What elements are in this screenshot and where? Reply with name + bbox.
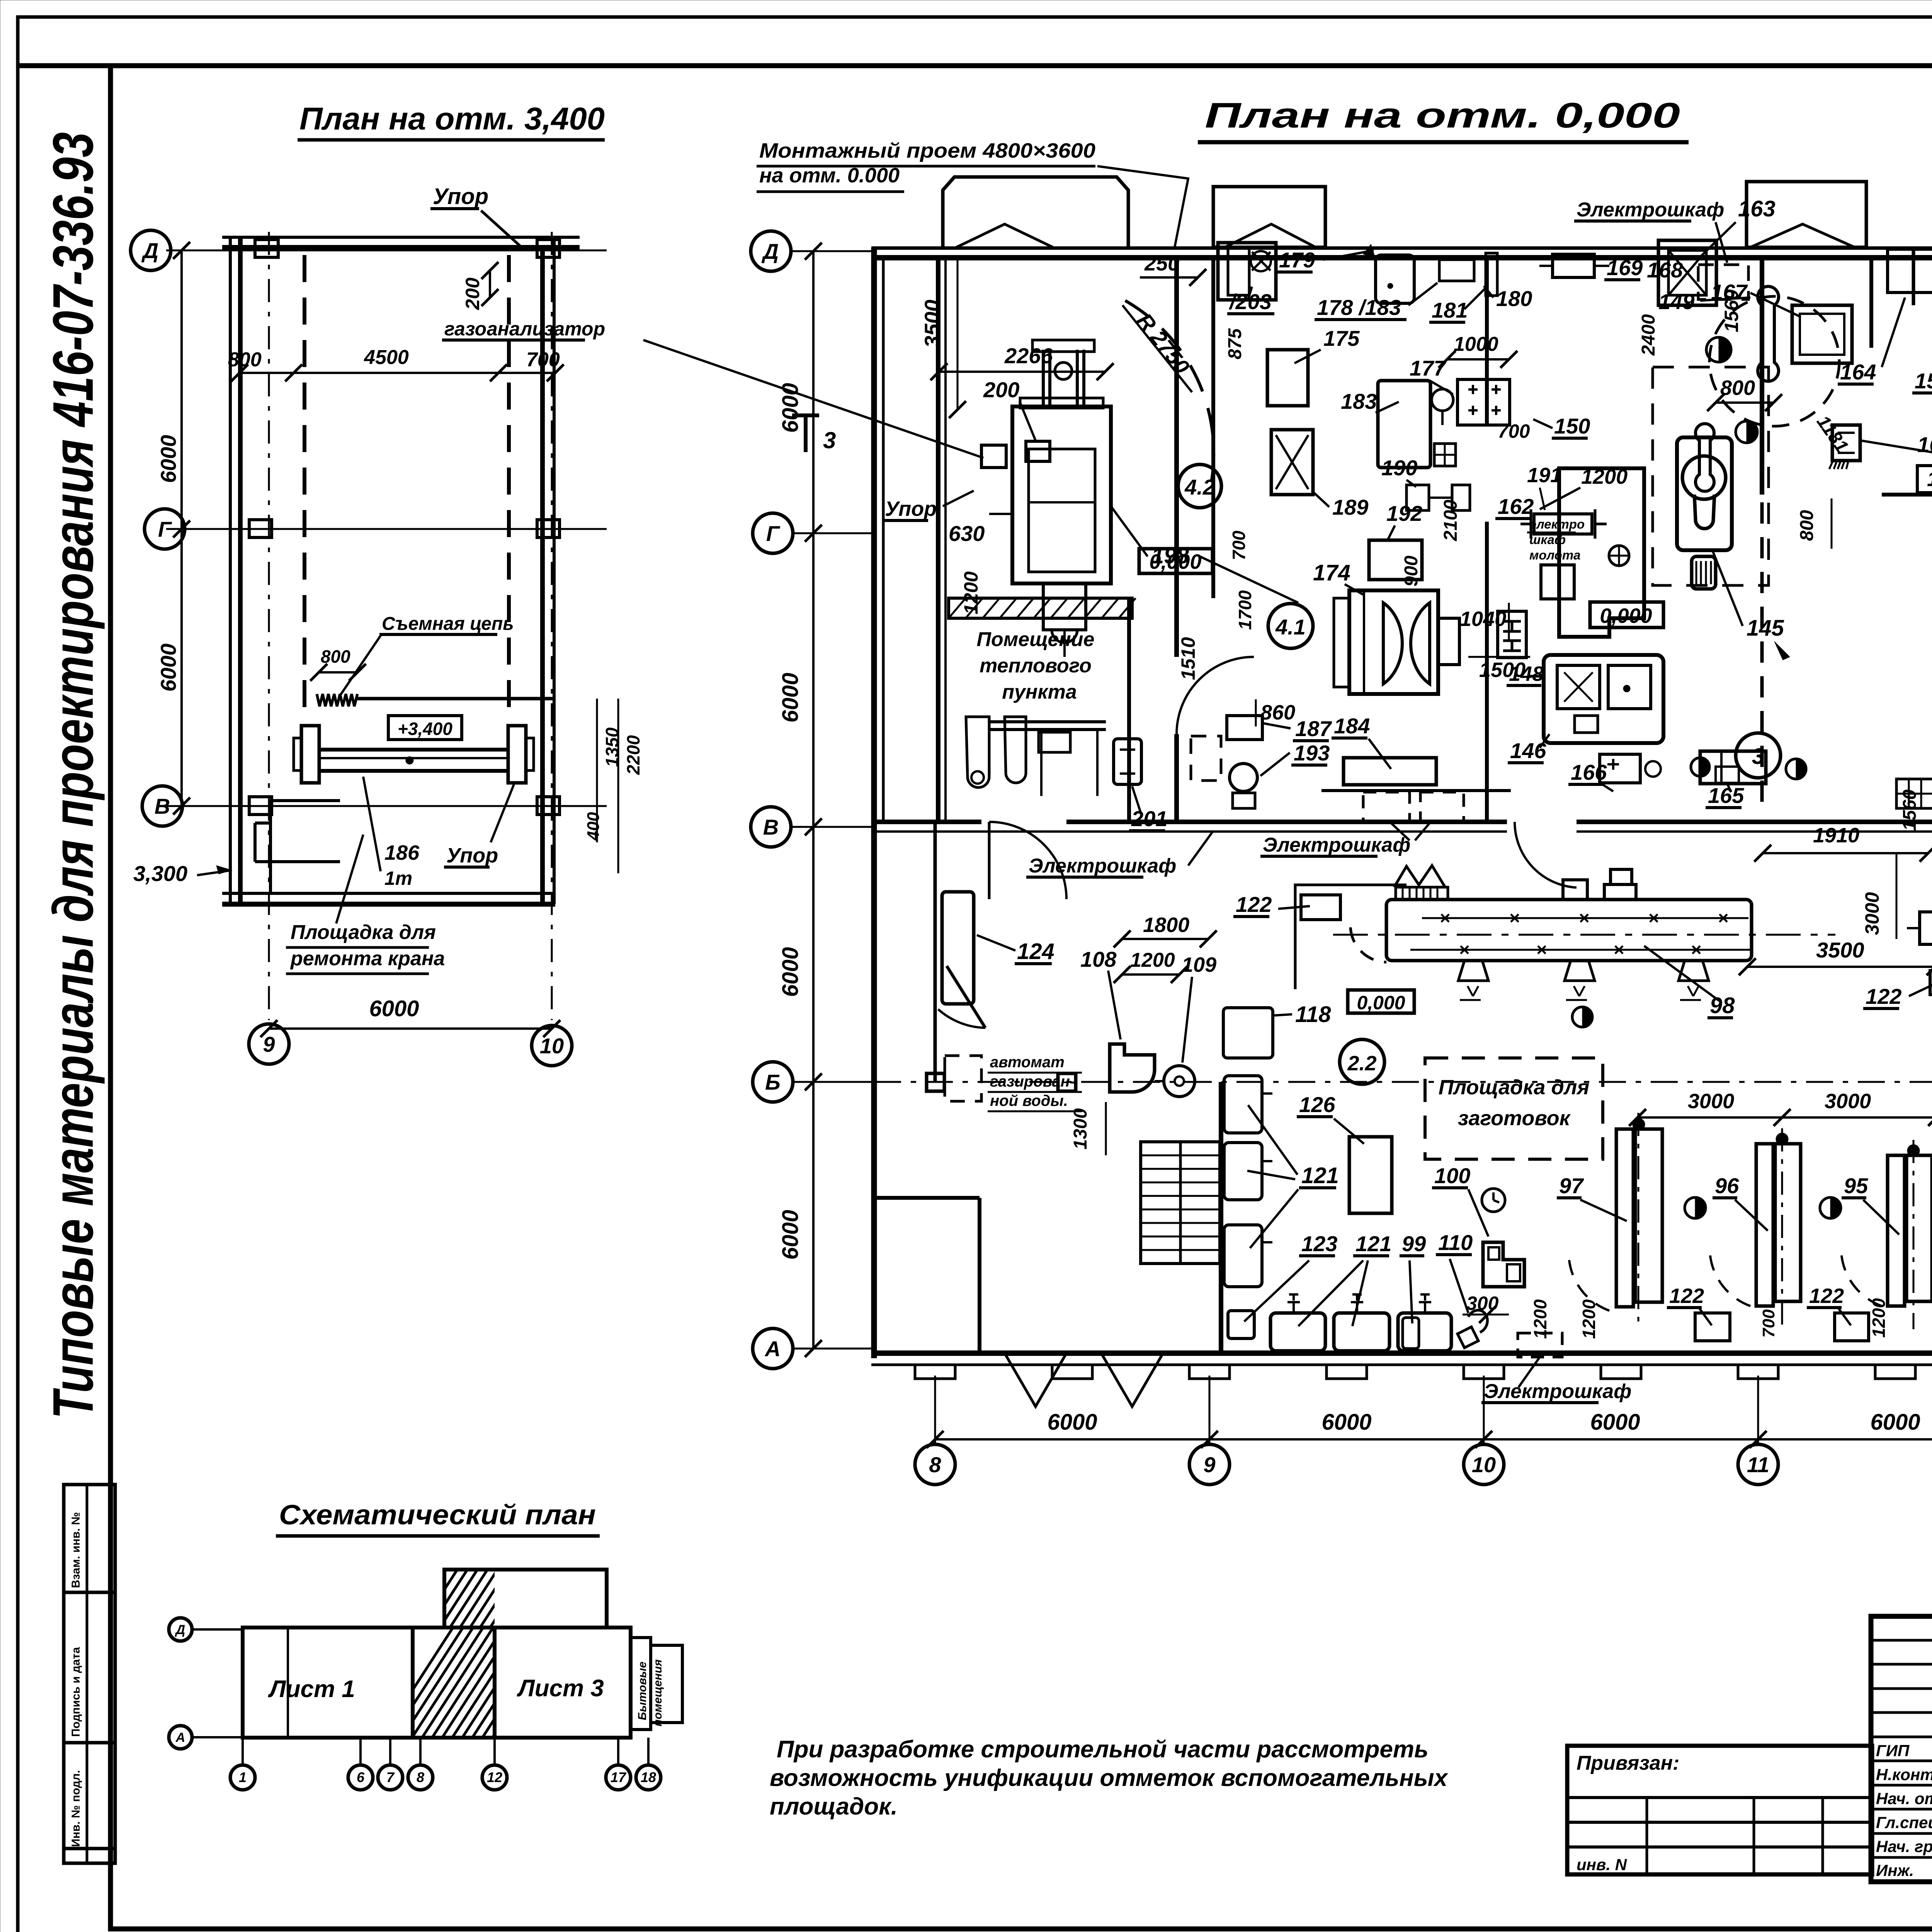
axis circle B central — [753, 1062, 793, 1102]
svg-text:Электрошкаф: Электрошкаф — [1263, 834, 1410, 856]
sink 100 unit — [1483, 1242, 1524, 1287]
half circles row — [1685, 1197, 1706, 1218]
schematic outline list1 — [243, 1628, 413, 1738]
svg-text:инв. N: инв. N — [1577, 1855, 1628, 1874]
svg-text:99: 99 — [1402, 1231, 1426, 1256]
svg-text:6000: 6000 — [778, 383, 803, 433]
machine 174 — [1349, 590, 1438, 694]
svg-text:400: 400 — [584, 812, 603, 841]
room level mark 0,000 — [1139, 549, 1213, 573]
svg-text:178 /183: 178 /183 — [1317, 295, 1401, 320]
svg-text:6000: 6000 — [778, 1210, 803, 1260]
svg-text:Гл.спец.: Гл.спец. — [1876, 1813, 1932, 1832]
schematic top bump — [444, 1570, 607, 1628]
left plan axis line V — [166, 805, 607, 807]
leader to proem — [1097, 166, 1188, 247]
svg-text:Лист 1: Лист 1 — [268, 1676, 355, 1702]
axis circle G central — [753, 513, 793, 553]
svg-text:ремонта крана: ремонта крана — [290, 947, 445, 970]
level mark +3,400 — [388, 716, 462, 740]
svg-text:Электрошкаф: Электрошкаф — [1577, 199, 1724, 221]
gate swing marks on D wall — [956, 224, 1053, 247]
svg-text:149: 149 — [1658, 289, 1694, 314]
svg-text:177: 177 — [1410, 356, 1447, 380]
item 126 box — [1349, 1137, 1392, 1213]
wall along axis V — [874, 820, 981, 824]
svg-text:122: 122 — [1236, 892, 1272, 917]
svg-text:1560: 1560 — [1721, 289, 1742, 332]
svg-text:Нач. гр.: Нач. гр. — [1876, 1837, 1932, 1855]
partition line x3352 — [1295, 885, 1406, 989]
dashed cabinet top right — [1698, 265, 1748, 299]
toilet 110 — [1458, 1327, 1478, 1348]
svg-text:1т: 1т — [384, 867, 412, 889]
svg-text:Электрошкаф: Электрошкаф — [1029, 855, 1176, 877]
bottom dimension line of central plan — [935, 1438, 1932, 1440]
teplopunkt left hatched wall — [949, 598, 1132, 618]
columns on axis G — [249, 520, 272, 537]
svg-text:В: В — [763, 815, 779, 839]
svg-text:Бытовые: Бытовые — [636, 1662, 649, 1720]
svg-text:2100: 2100 — [1440, 500, 1461, 541]
svg-text:146: 146 — [1510, 738, 1546, 763]
svg-text:6000: 6000 — [156, 643, 180, 692]
svg-text:17: 17 — [611, 1769, 627, 1785]
item 149 bone — [1758, 286, 1779, 381]
label 171 boxed — [1917, 466, 1932, 493]
axis circle 10c — [1464, 1444, 1504, 1485]
svg-text:0,000: 0,000 — [1600, 604, 1652, 628]
axis circle D — [131, 230, 171, 270]
svg-text:97: 97 — [1559, 1173, 1584, 1198]
machine 98 checker platform — [1396, 887, 1448, 900]
left plan axis line G — [166, 528, 607, 530]
svg-text:8: 8 — [417, 1769, 424, 1785]
washbasin boxes 121 column — [1224, 1076, 1262, 1133]
svg-text:ной воды.: ной воды. — [990, 1092, 1068, 1109]
left outer wall — [871, 248, 877, 1358]
title block small rows left — [1871, 1639, 1932, 1642]
machine 145 lower — [1692, 556, 1716, 589]
door arc R2750 dashed — [1125, 301, 1214, 480]
item 118 box — [1223, 1008, 1273, 1058]
svg-text:630: 630 — [949, 521, 985, 546]
machine 163 X-box — [1658, 240, 1716, 305]
svg-text:8: 8 — [929, 1452, 941, 1477]
svg-text:4.1: 4.1 — [1275, 615, 1306, 639]
svg-text:10: 10 — [1472, 1452, 1496, 1477]
svg-text:800: 800 — [321, 646, 350, 667]
V wall lower thin line — [874, 830, 1507, 833]
press 198 lower part — [1043, 583, 1086, 630]
svg-text:6000: 6000 — [1321, 1410, 1371, 1435]
level mark 0,000 right room — [1590, 602, 1663, 628]
svg-text:возможность унификации отмето: возможность унификации отметок вспомогат… — [770, 1765, 1449, 1791]
fixture row 2 — [1334, 1313, 1389, 1351]
fixture row 3 — [1398, 1313, 1451, 1351]
svg-text:Г: Г — [158, 517, 172, 541]
item 192 box — [1369, 540, 1422, 580]
bottom wall along axis A — [871, 1350, 1932, 1356]
workbench line under 184 — [1321, 789, 1511, 792]
lower room wall vertical x2535 — [978, 1198, 981, 1353]
wall on axis 10 upper — [1485, 258, 1489, 425]
svg-text:ГИП: ГИП — [1876, 1742, 1910, 1760]
machine 97 — [1616, 1129, 1633, 1307]
svg-text:121: 121 — [1355, 1231, 1391, 1256]
fixture row 1 — [1270, 1313, 1325, 1351]
svg-text:200: 200 — [983, 378, 1019, 402]
item 175 box — [1267, 350, 1308, 406]
svg-text:1: 1 — [239, 1769, 247, 1785]
drain circle under 98 — [1572, 1007, 1592, 1027]
svg-text:Д: Д — [762, 239, 779, 264]
svg-text:174: 174 — [1313, 560, 1350, 585]
dashed arc left of 98 — [1350, 927, 1386, 962]
circle 4.1 — [1268, 604, 1313, 648]
svg-text:Площадка для: Площадка для — [291, 921, 436, 944]
svg-text:126: 126 — [1299, 1092, 1335, 1117]
svg-text:Упор: Упор — [885, 497, 937, 520]
svg-text:148: 148 — [1509, 662, 1544, 685]
svg-text:179: 179 — [1279, 248, 1315, 272]
stairs — [1141, 1142, 1220, 1264]
svg-text:Б: Б — [765, 1070, 781, 1094]
svg-text:124: 124 — [1017, 939, 1054, 964]
svg-text:12: 12 — [487, 1769, 502, 1785]
crane rail dashed right — [507, 255, 511, 719]
dashed zone around 145 — [1653, 367, 1769, 585]
machine 95 — [1888, 1155, 1905, 1306]
repair platform outline — [269, 800, 272, 893]
small box left of fixtures — [1228, 1311, 1254, 1338]
machine 98 top bumps — [1563, 880, 1587, 900]
cabinet molota box — [1541, 565, 1574, 599]
parapet bump mid above D — [1213, 187, 1325, 247]
item 167 box — [1792, 305, 1852, 363]
svg-text:0,000: 0,000 — [1357, 992, 1405, 1014]
title block outer box — [1871, 1616, 1932, 1882]
svg-text:1700: 1700 — [1235, 590, 1255, 630]
parapet bump right above D — [1747, 182, 1866, 247]
door arc at V opening right — [1515, 822, 1577, 888]
svg-text:1300: 1300 — [1070, 1108, 1091, 1150]
svg-text:А: А — [175, 1730, 185, 1745]
svg-text:6000: 6000 — [1047, 1410, 1097, 1435]
svg-text:Инж.: Инж. — [1876, 1861, 1914, 1879]
dashed cabinets above V wall — [1363, 792, 1410, 821]
svg-text:Съемная цепь: Съемная цепь — [382, 614, 514, 634]
taps above fixtures — [1287, 1294, 1300, 1313]
I-beam rack 148 — [1498, 611, 1526, 658]
door arc at V opening left — [989, 822, 1066, 899]
svg-text:181: 181 — [1432, 298, 1468, 322]
svg-text:192: 192 — [1386, 501, 1422, 526]
svg-text:6000: 6000 — [1590, 1410, 1640, 1435]
svg-text:187: 187 — [1295, 716, 1332, 741]
half circle marker 1 — [1706, 337, 1731, 362]
svg-text:180: 180 — [1496, 286, 1532, 311]
machine 145 keyhole — [1677, 437, 1732, 550]
svg-text:Нач. отд.: Нач. отд. — [1876, 1789, 1932, 1808]
machine 98 long conveyor — [1386, 900, 1752, 961]
svg-text:175: 175 — [1323, 326, 1360, 350]
svg-text:201: 201 — [1131, 806, 1167, 831]
item 122 box right — [1930, 971, 1932, 995]
svg-text:Помещение: Помещение — [977, 628, 1095, 651]
ploschadka dlya zagotovok dashed box — [1425, 1058, 1603, 1159]
svg-text:Упор: Упор — [433, 184, 488, 209]
svg-text:3500: 3500 — [1816, 938, 1864, 962]
svg-text:При разработке строительной ч: При разработке строительной части рассмо… — [777, 1736, 1429, 1763]
machine 146-148 cluster — [1544, 655, 1663, 743]
item 169 ventilation — [1553, 254, 1594, 277]
svg-text:860: 860 — [1260, 701, 1295, 724]
schematic bottom circles — [241, 1738, 244, 1764]
left plan axis line D — [166, 250, 607, 252]
svg-text:6: 6 — [357, 1769, 365, 1785]
svg-text:Схематический план: Схематический план — [279, 1500, 596, 1531]
crane end truck left — [301, 726, 319, 783]
svg-text:100: 100 — [1434, 1163, 1470, 1188]
svg-text:Лист 3: Лист 3 — [517, 1675, 604, 1702]
boiler equipment — [966, 717, 989, 787]
svg-text:2.2: 2.2 — [1347, 1052, 1376, 1075]
interior wall on axis 8 — [936, 258, 940, 822]
svg-text:193: 193 — [1294, 741, 1330, 765]
machine 165 — [1700, 751, 1766, 784]
door swings below A wall — [1005, 1353, 1066, 1406]
dot on beam — [406, 757, 413, 764]
svg-text:1200: 1200 — [1130, 949, 1175, 971]
svg-text:Н.контр: Н.контр — [1876, 1765, 1932, 1784]
item 190 small boxes — [1406, 485, 1429, 510]
axis circle V central — [751, 807, 791, 847]
svg-text:165: 165 — [1708, 783, 1744, 808]
svg-text:+3,400: +3,400 — [398, 719, 452, 739]
svg-text:3,300: 3,300 — [133, 861, 187, 886]
svg-text:122: 122 — [1866, 984, 1901, 1009]
dashed cabinet near wall x3100 — [1191, 736, 1221, 781]
svg-text:164: 164 — [1840, 360, 1876, 384]
axis circle 9c — [1189, 1444, 1230, 1485]
svg-text:123: 123 — [1301, 1231, 1337, 1256]
pilaster tabs below A wall — [915, 1365, 955, 1379]
circle 4.2 — [1178, 464, 1221, 508]
svg-text:700: 700 — [1498, 420, 1530, 442]
axis circle A central — [753, 1328, 793, 1369]
svg-text:1200: 1200 — [1869, 1298, 1889, 1338]
item 189 fan box — [1271, 430, 1313, 495]
svg-text:300: 300 — [1466, 1293, 1499, 1314]
svg-text:118: 118 — [1295, 1002, 1331, 1027]
svg-text:автомат: автомат — [990, 1054, 1065, 1071]
svg-text:6000: 6000 — [369, 996, 419, 1021]
lower room wall horizontal y3100 — [876, 1196, 980, 1200]
svg-text:3000: 3000 — [1861, 892, 1883, 935]
machine 98 centerlines — [1422, 917, 1748, 919]
svg-text:2400: 2400 — [1638, 314, 1659, 356]
door arcs dashed lower — [1569, 1256, 1609, 1311]
dashed cabinet 122 bottom — [1518, 1333, 1562, 1357]
svg-text:газирован-: газирован- — [990, 1073, 1075, 1090]
machine 162 big block — [1559, 468, 1644, 637]
svg-text:121: 121 — [1301, 1163, 1339, 1188]
item 191 fitting — [1534, 514, 1592, 534]
crane end truck right — [508, 726, 526, 783]
svg-text:95: 95 — [1844, 1173, 1868, 1198]
parapet bump left above D — [943, 177, 1128, 247]
svg-text:пункта: пункта — [1002, 681, 1077, 703]
schematic axis A — [169, 1726, 192, 1749]
small square grid item — [1434, 444, 1456, 466]
sensor box gazoanalizator — [981, 445, 1006, 468]
item 124 tall rect — [942, 892, 974, 1004]
svg-text:6000: 6000 — [778, 947, 803, 997]
svg-text:площадок.: площадок. — [770, 1793, 898, 1820]
svg-text:Типовые материалы для проек: Типовые материалы для проектирования 416… — [41, 132, 105, 1419]
svg-text:Д: Д — [175, 1622, 185, 1637]
svg-text:171: 171 — [1927, 468, 1932, 491]
svg-text:2266: 2266 — [1004, 344, 1053, 368]
columns on axis B — [927, 1073, 944, 1091]
svg-text:900: 900 — [1401, 556, 1422, 587]
item 177 machine — [1458, 379, 1510, 425]
svg-text:газоанализатор: газоанализатор — [444, 318, 605, 340]
svg-text:заготовок: заготовок — [1458, 1107, 1571, 1130]
crane rail dashed left — [303, 255, 306, 719]
svg-text:1800: 1800 — [1143, 913, 1189, 937]
svg-text:96: 96 — [1715, 1173, 1739, 1198]
svg-text:875: 875 — [1225, 328, 1245, 359]
electro cabinet 201 — [1114, 739, 1141, 784]
circle 2.2 — [1340, 1039, 1384, 1084]
wall x4843 stub — [1869, 258, 1873, 348]
column axis 10 line — [551, 232, 553, 1020]
svg-text:Привязан:: Привязан: — [1577, 1752, 1679, 1774]
svg-text:Инв. № подл.: Инв. № подл. — [70, 1770, 82, 1847]
platform top line — [357, 697, 555, 701]
item 164 — [1888, 249, 1932, 293]
axis circle G — [145, 509, 185, 549]
axis circle 8 — [915, 1444, 955, 1485]
section mark 3 left — [804, 413, 808, 452]
svg-text:6000: 6000 — [156, 435, 180, 483]
half circle small right — [1691, 758, 1709, 776]
item 122 box hall — [1301, 895, 1340, 920]
svg-text:0,000: 0,000 — [1149, 550, 1201, 573]
crane bridge beams — [319, 748, 509, 752]
wall along axis D top — [871, 247, 1932, 250]
axis circle V — [142, 786, 182, 826]
svg-text:700: 700 — [526, 349, 560, 371]
svg-text:157: 157 — [1915, 369, 1932, 393]
svg-text:1910: 1910 — [1813, 824, 1859, 847]
machine 98 feet — [1458, 961, 1488, 981]
dashed box avtomat — [945, 1056, 981, 1101]
svg-text:122: 122 — [1809, 1284, 1844, 1308]
svg-text:помещения: помещения — [651, 1659, 664, 1726]
svg-text:3000: 3000 — [1825, 1090, 1871, 1113]
svg-text:А: А — [764, 1337, 781, 1361]
svg-text:700: 700 — [1229, 531, 1249, 560]
title block signature rows — [1871, 1736, 1932, 1738]
schematic outline list3 — [495, 1628, 631, 1738]
item 183 box — [1378, 381, 1430, 468]
axis circle D central — [751, 231, 791, 271]
svg-text:160: 160 — [1917, 432, 1932, 457]
svg-text:1510: 1510 — [1177, 637, 1199, 680]
svg-text:молота: молота — [1529, 548, 1581, 562]
columns on axis V — [249, 797, 272, 815]
half circle marker 3 — [1786, 759, 1806, 779]
svg-text:Монтажный проем 4800×3600: Монтажный проем 4800×3600 — [759, 139, 1095, 162]
left plan walls — [222, 236, 580, 239]
svg-text:110: 110 — [1438, 1230, 1473, 1255]
columns on axis D — [255, 240, 278, 257]
svg-text:3000: 3000 — [1688, 1090, 1734, 1113]
schematic axis D — [169, 1618, 192, 1641]
axis circle 11c — [1738, 1444, 1778, 1485]
clock symbol 100 — [1482, 1189, 1505, 1212]
svg-text:Подпись и дата: Подпись и дата — [70, 1647, 82, 1737]
press 198 machine — [1012, 406, 1111, 583]
sink unit 108-109 — [1110, 1044, 1155, 1092]
svg-text:700: 700 — [1759, 1309, 1778, 1338]
item 150 bone — [1696, 424, 1714, 492]
privyazan box — [1567, 1746, 1872, 1874]
svg-text:шкаф: шкаф — [1529, 532, 1566, 547]
wall horizontal x4870-5428 y1280 — [1882, 493, 1932, 497]
door leaves lower left — [947, 966, 985, 1028]
machine 166 — [1600, 754, 1640, 783]
svg-text:169: 169 — [1607, 255, 1643, 280]
schematic vertical line inside — [287, 1628, 289, 1738]
svg-text:190: 190 — [1381, 456, 1417, 480]
svg-text:186: 186 — [384, 841, 420, 864]
svg-text:Д: Д — [141, 238, 158, 263]
svg-text:теплового: теплового — [980, 655, 1092, 677]
svg-text:2200: 2200 — [623, 735, 643, 775]
svg-text:7: 7 — [386, 1769, 395, 1785]
svg-text:В: В — [155, 794, 170, 818]
svg-text:10: 10 — [540, 1034, 564, 1058]
svg-text:18: 18 — [641, 1769, 656, 1785]
wall x3140 — [1211, 258, 1215, 598]
svg-text:4500: 4500 — [364, 346, 409, 369]
svg-text:183: 183 — [1341, 389, 1377, 413]
svg-text:122: 122 — [1669, 1284, 1704, 1308]
svg-text:163: 163 — [1738, 196, 1776, 221]
svg-text:250: 250 — [1144, 252, 1179, 275]
svg-text:145: 145 — [1747, 616, 1784, 641]
svg-text:184: 184 — [1334, 714, 1370, 738]
svg-text:166: 166 — [1571, 760, 1607, 784]
axis circle 10 — [532, 1026, 572, 1066]
svg-text:1000: 1000 — [1454, 333, 1498, 355]
stair core wall x3160 — [1219, 1082, 1223, 1353]
svg-text:1200: 1200 — [960, 571, 982, 614]
svg-text:План на отм. 3,400: План на отм. 3,400 — [299, 101, 605, 136]
level mark 0,000 hall — [1348, 990, 1414, 1013]
svg-text:3500: 3500 — [920, 299, 944, 348]
svg-text:800: 800 — [1797, 510, 1817, 541]
svg-text:150: 150 — [1554, 414, 1590, 438]
svg-text:3: 3 — [1752, 744, 1764, 769]
svg-text:9: 9 — [1203, 1452, 1215, 1477]
svg-text:План на отм. 0,000: План на отм. 0,000 — [1205, 96, 1680, 135]
half circle marker 2 — [1736, 421, 1757, 443]
